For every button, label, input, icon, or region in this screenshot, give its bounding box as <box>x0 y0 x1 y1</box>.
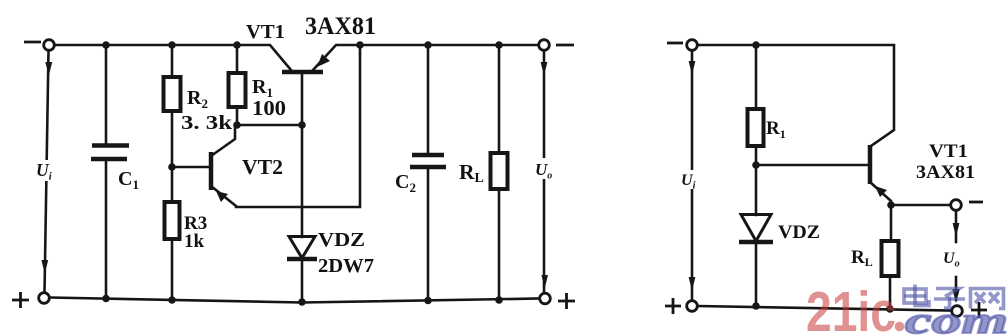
svg-text:2DW7: 2DW7 <box>318 255 374 277</box>
svg-text:3. 3k: 3. 3k <box>181 112 233 134</box>
svg-text:100: 100 <box>252 96 286 120</box>
svg-text:1k: 1k <box>184 231 205 252</box>
svg-text:21ic: 21ic <box>806 280 896 335</box>
svg-text:3AX81: 3AX81 <box>916 162 975 183</box>
svg-text:VDZ: VDZ <box>318 229 365 251</box>
svg-text:VT2: VT2 <box>242 155 283 179</box>
svg-text:VDZ: VDZ <box>778 222 820 243</box>
svg-text:VT1: VT1 <box>246 21 285 43</box>
svg-text:VT1: VT1 <box>929 141 968 162</box>
svg-text:3AX81: 3AX81 <box>305 13 376 40</box>
